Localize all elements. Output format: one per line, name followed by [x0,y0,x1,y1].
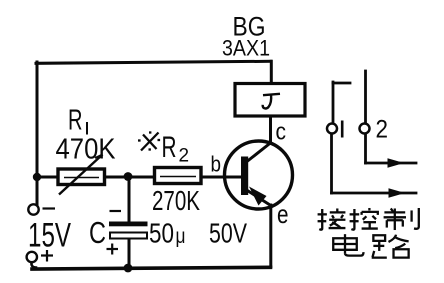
label capacitor minus [110,210,122,212]
svg-text:e: e [277,199,289,229]
svg-text:470K: 470K [56,134,117,166]
svg-text:270K: 270K [152,185,200,216]
resistor R2 body [155,168,202,184]
label minus [43,207,56,209]
svg-text:3AX1: 3AX1 [222,36,270,61]
label plus [41,250,53,262]
node junction R1-left [33,173,41,181]
wire rail to relay J [270,61,273,84]
node junction capacitor bottom [124,264,133,273]
wire bottom rail [32,267,271,269]
arrow on lower control lead [389,188,406,197]
battery minus terminal [28,204,38,214]
resistor R1 (adjustable) body [58,155,105,195]
wire top rail [36,61,271,63]
svg-text:c: c [276,119,287,146]
svg-text:2: 2 [376,116,389,144]
node junction capacitor top [124,172,133,181]
svg-text:50: 50 [149,218,174,249]
transistor emitter stroke with arrow [245,187,270,206]
capacitor C plates [109,222,148,239]
svg-text:15V: 15V [28,217,71,255]
svg-text:μ: μ [176,225,186,248]
wire J to collector [269,116,272,143]
label lu (circuit) character [372,235,409,258]
transistor BG (PNP) circle [225,141,293,209]
svg-text:C: C [89,215,106,250]
wire capacitor top lead [128,177,131,221]
svg-text:R: R [162,131,177,164]
wire capacitor bottom lead [128,239,131,268]
transistor collector stroke [245,143,271,164]
contact 1 terminal circle [327,124,337,134]
label zhi (system) character [384,208,419,230]
contact 2 terminal circle [360,124,370,134]
wire R2 to base [200,176,242,179]
label jie (connect) character [318,208,346,229]
wire left rail [36,62,39,205]
relay contact terminal 1 wire [332,82,417,193]
arrow on upper control lead [388,158,405,167]
wire battery to R1 [37,176,57,179]
relay contact terminal 2 wire [366,71,417,163]
svg-text:b: b [211,152,222,177]
label J [263,94,280,109]
transistor base bar [241,157,248,196]
svg-text:2: 2 [179,146,190,167]
label dian (electric) character [333,234,363,255]
svg-text:50V: 50V [209,218,247,249]
battery plus terminal [27,252,37,262]
selected-value mark for R2 [138,133,160,151]
label 1 [341,121,344,138]
relay coil J box [235,84,305,117]
wire R1 to R2 [105,176,155,179]
wire battery plus hook [31,263,36,268]
label capacitor plus [107,244,119,255]
wire emitter down [269,205,272,267]
label kong (control) character [350,208,378,230]
svg-text:R: R [68,105,83,137]
